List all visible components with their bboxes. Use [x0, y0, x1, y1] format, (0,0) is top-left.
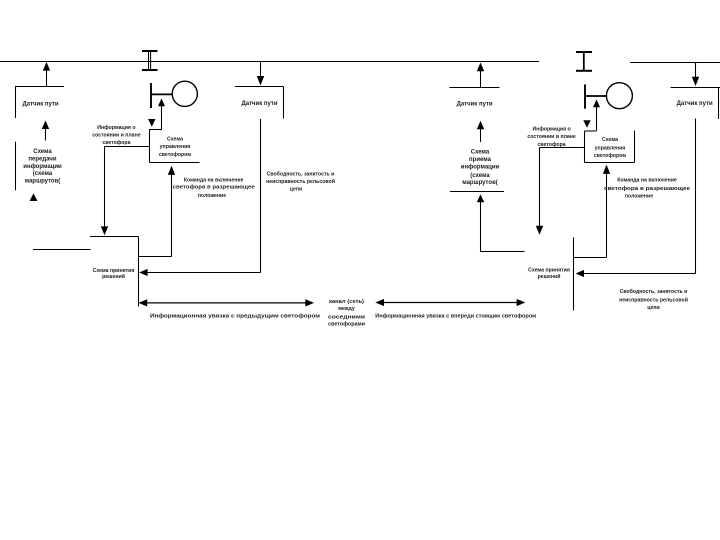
svg-text:положение: положение [625, 194, 653, 200]
wire: sensor3 to track with up arrow [477, 63, 484, 88]
svg-text:состоянии и плане: состоянии и плане [92, 133, 140, 139]
svg-text:Свободность, занятость и: Свободность, занятость и [267, 170, 335, 177]
box: датчик пути 2 (top + right edge) [235, 87, 284, 119]
arrowhead standalone below схема передачи [30, 193, 38, 201]
track line right [630, 62, 720, 64]
svg-text:решений: решений [102, 273, 125, 280]
label: информация о состоянии 2 [527, 126, 575, 148]
traffic light 2 (mast, arm, head circle) [585, 83, 632, 109]
svg-text:Схема: Схема [471, 149, 490, 155]
track line left [0, 61, 539, 63]
svg-text:(схема: (схема [33, 171, 53, 177]
arrow: схема приема to датчик пути 3 [477, 121, 484, 142]
svg-text:Датчик пути: Датчик пути [22, 102, 58, 108]
svg-text:Команда на включение: Команда на включение [184, 178, 244, 184]
svg-text:неисправность рельсовой: неисправность рельсовой [619, 296, 688, 303]
wire: control box 2 to traffic light 2 with up arrow [593, 100, 600, 131]
wire: command from decision box 1 to control box 1 [139, 166, 176, 257]
svg-text:управления: управления [160, 144, 191, 150]
wire: схема приема down and right [477, 194, 525, 251]
wire: занятость from датчик пути 2 to decision box 1 [139, 119, 260, 276]
box: схема управления светофором 1 [150, 129, 200, 163]
svg-text:приема: приема [469, 157, 492, 163]
svg-text:светофорами: светофорами [328, 320, 365, 327]
insulated joint 2 [576, 52, 592, 71]
svg-text:информации: информации [461, 163, 500, 170]
double arrow: увязка с предыдущим светофором [139, 299, 315, 306]
insulated joint 1 [142, 51, 158, 70]
svg-text:цепи: цепи [290, 186, 302, 192]
svg-text:светофора: светофора [102, 139, 130, 146]
svg-text:Информационная увязка с предыд: Информационная увязка с предыдущим свето… [150, 312, 320, 319]
svg-text:информации: информации [23, 163, 62, 170]
box: схема передачи информации (left edge only) [16, 142, 63, 191]
svg-text:Схема: Схема [602, 137, 618, 143]
svg-text:решений: решений [538, 273, 561, 280]
svg-text:Датчик пути: Датчик пути [457, 102, 493, 108]
svg-text:Команда на включение: Команда на включение [617, 177, 677, 183]
svg-text:(схема: (схема [470, 173, 490, 179]
arrow: схема передачи to датчик пути 1 [42, 121, 49, 141]
wire segment left of decision box 1 [33, 249, 91, 251]
svg-text:передачи: передачи [28, 156, 56, 162]
wire: занятость from датчик пути 4 to decision box 2 [576, 119, 696, 278]
svg-text:управления: управления [595, 145, 626, 151]
svg-text:Схема принятия: Схема принятия [93, 268, 135, 274]
svg-text:маршрутов(: маршрутов( [462, 180, 498, 186]
traffic light 1 (mast, arm, head circle) [151, 81, 197, 108]
svg-text:цепи: цепи [647, 305, 659, 311]
svg-text:светофора в разрешающее: светофора в разрешающее [173, 184, 255, 191]
svg-text:между: между [338, 306, 355, 312]
label: команда на включение 2 [604, 177, 690, 199]
svg-text:светофора: светофора [538, 141, 566, 148]
svg-text:Датчик пути: Датчик пути [677, 101, 713, 107]
box: схема принятия решений 1 (top + right edge) [90, 237, 139, 307]
svg-text:Датчик пути: Датчик пути [241, 101, 277, 107]
svg-text:светофором: светофором [594, 152, 626, 159]
arrow down: traffic light 2 state to control box 2 [583, 120, 590, 128]
arrow down: traffic light 1 state to control box [148, 119, 155, 127]
svg-text:Информация о: Информация о [532, 126, 570, 133]
box: схема приема информации (bottom edge only) [450, 149, 504, 191]
svg-text:положение: положение [198, 193, 226, 199]
svg-text:Свободность, занятость и: Свободность, занятость и [620, 288, 688, 295]
svg-text:Схема: Схема [33, 149, 52, 155]
svg-text:соседними: соседними [328, 315, 365, 321]
box: датчик пути 1 (top edge + left edge) [15, 87, 64, 119]
box: схема управления светофором 2 [585, 131, 635, 163]
svg-text:канал (сеть): канал (сеть) [329, 299, 364, 305]
svg-text:состоянии и плане: состоянии и плане [527, 134, 575, 140]
svg-text:Информация о: Информация о [97, 124, 135, 131]
wire: sensor1 to track with up arrow [43, 62, 50, 86]
svg-text:Схема: Схема [167, 136, 183, 142]
box: датчик пути 3 (top edge only) [450, 88, 500, 108]
label: свободность занятость 2 [619, 288, 688, 311]
svg-text:Информационная увязка с вперед: Информационная увязка с впереди стоящим … [375, 312, 536, 319]
wire: command from decision box 2 to control box 2 [574, 165, 611, 258]
svg-text:Схема принятия: Схема принятия [528, 268, 570, 274]
box: схема принятия решений 2 (right edge only) [528, 238, 573, 311]
arrow down: track to датчик пути 2 [257, 62, 264, 86]
wire: info from control box 2 down to decision box 2 [536, 148, 585, 235]
svg-text:светофором: светофором [159, 151, 191, 158]
label: команда на включение 1 [173, 178, 255, 199]
label: информация о состоянии 1 [92, 124, 140, 146]
wire: info from control box 1 down to decision box 1 [101, 147, 150, 236]
svg-text:светофора в разрешающее: светофора в разрешающее [604, 185, 690, 192]
box: датчик пути 4 (top + right edge) [671, 88, 720, 120]
svg-text:маршрутов(: маршрутов( [25, 179, 61, 185]
svg-text:неисправность рельсовой: неисправность рельсовой [266, 178, 335, 185]
double arrow: увязка с впереди стоящим светофором [375, 299, 525, 306]
label: свободность занятость 1 [266, 170, 335, 192]
wire: control box 1 to traffic light 1 with up arrow [158, 98, 165, 130]
arrow down: track to датчик пути 4 [692, 63, 699, 87]
label: канал сеть между соседними светофорами [328, 299, 365, 328]
